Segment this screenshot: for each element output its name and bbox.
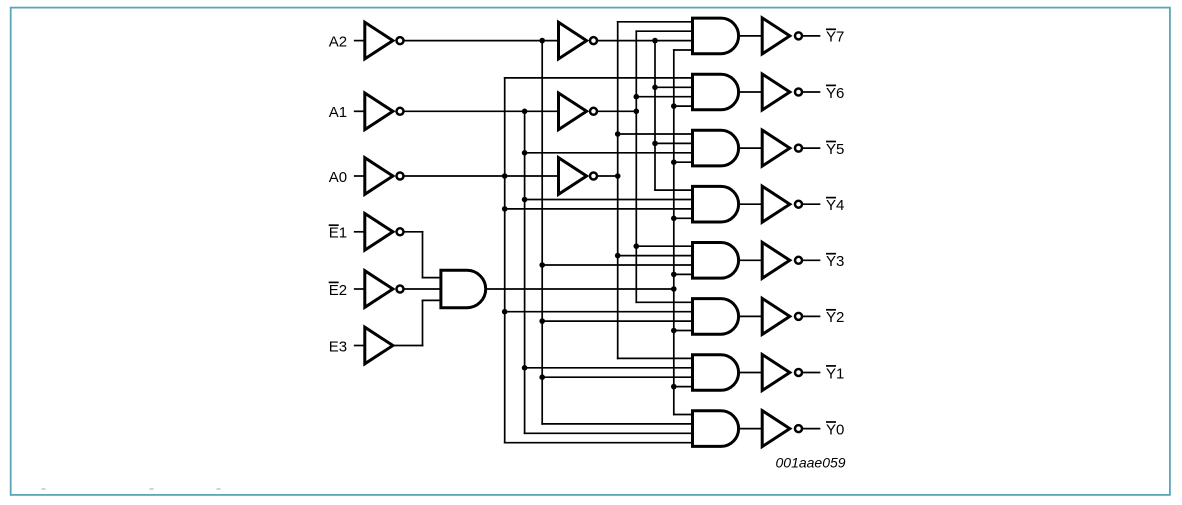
svg-text:Y0: Y0 [826,421,844,438]
overline Y1 [826,365,836,367]
overline E1 [329,224,339,226]
inverting bubble A0 second stage [590,173,597,180]
overline E2 [329,281,339,283]
wire A2 to G4 input 1 [655,189,693,191]
output inverter Y1 [762,355,790,391]
inverter/buffer A1 input stage [365,93,393,130]
wire EN to G7 input 4 [674,49,693,51]
wire A2 input [355,40,365,42]
output inverter Y4 [762,186,790,222]
node /A2 tap G2 [539,318,545,324]
overline Y4 [826,197,836,199]
wire A0 to G1 input 1 [618,357,693,359]
wire /A1 to G5 input 3 [525,152,693,154]
output inverter Y5 [762,130,790,166]
node A0 tap G5 [615,131,621,137]
node A1 tap G3 [634,243,640,249]
overline Y0 [826,421,836,423]
wire E2 input [355,288,365,290]
wire EN to G4 input 4 [674,217,693,219]
wire to label Y2 [803,315,819,317]
overline Y6 [826,84,836,86]
wire /A2 row [405,40,559,42]
inverter A0 second stage [559,158,587,195]
output inverter Y0 [762,411,790,447]
wire A1 to G2 input 1 [636,301,692,303]
wire A0 to G3 input 2 [618,255,693,257]
wire EN to G3 input 4 [674,273,693,275]
node A2 tap G6 [652,85,658,91]
inverting bubble E2 [397,286,404,293]
wire /E1 to enable AND [423,277,441,279]
overline Y2 [826,309,836,311]
wire to label Y5 [803,147,819,149]
wire E3 out [394,345,423,347]
svg-text:Y4: Y4 [826,197,844,214]
AND gate G2 [693,299,739,335]
svg-text:A0: A0 [329,169,347,186]
node /A0 tap [502,173,508,179]
wire G7 to inverter [740,35,763,37]
wire A1 to G3 input 1 [636,245,692,247]
wire EN to G5 input 4 [674,161,693,163]
node /A0 tap G2 [502,309,508,315]
wire /A1 row [405,110,559,112]
inverting bubble Y3 [795,257,802,264]
wire /A1 to G4 input 2 [525,199,693,201]
svg-text:A2: A2 [329,33,347,50]
wire /A2 to G3 input 3 [542,264,692,266]
wire /A2 to G2 input 3 [542,320,692,322]
node EN tap G6 [671,103,677,109]
wire to label Y3 [803,259,819,261]
node /A1 tap G4 [522,197,528,203]
wire A0 to G7 input 1 [618,21,693,23]
bus /A0 vertical [504,78,506,443]
inverting bubble A2 [397,37,404,44]
bus A1 vertical [635,31,637,302]
overline Y7 [826,28,836,30]
inverting bubble A1 second stage [590,108,597,115]
inverter/buffer A0 input stage [365,158,393,195]
svg-text:Y5: Y5 [826,141,844,158]
node EN tap G2 [671,328,677,334]
node EN tap G1 [671,384,677,390]
wire EN to G0 input 1 [674,414,693,416]
svg-text:Y7: Y7 [826,29,844,46]
svg-text:001aae059: 001aae059 [776,455,846,471]
node A1 junction [634,109,640,115]
inverting bubble Y1 [795,369,802,376]
inverter/buffer A2 input stage [365,22,393,59]
wire A2 to G6 input 2 [655,86,693,88]
inverting bubble Y2 [795,313,802,320]
AND gate G0 [693,411,739,447]
wire /A0 row [405,175,559,177]
bus enable vertical [673,50,675,415]
wire /A2 to G1 input 3 [542,376,692,378]
wire /E2 to enable AND [405,288,441,290]
wire enable to bus [487,288,674,290]
svg-text:Y1: Y1 [826,365,844,382]
wire A2 true to G7 input 3 [598,40,692,42]
wire /A0 to G0 input 4 [505,442,693,444]
svg-text:A1: A1 [329,104,347,121]
node /A1 tap G1 [522,365,528,371]
wire A0 to G5 input 1 [618,133,693,135]
wire to label Y1 [803,372,819,374]
node /A2 tap [539,38,545,44]
node A1 tap G6 [634,94,640,100]
overline Y5 [826,141,836,143]
svg-text:E2: E2 [329,282,347,299]
node A2 tap G5 [652,141,658,147]
wire /E1 out [405,231,423,233]
svg-text:Y6: Y6 [826,85,844,102]
node /A0 tap G4 [502,206,508,212]
wire G2 to inverter [740,315,763,317]
AND gate G1 [693,355,739,391]
wire A0 true to bus [598,175,618,177]
wire /A1 to G0 input 3 [525,432,693,434]
svg-text:E1: E1 [329,225,347,242]
node /A2 tap G3 [539,262,545,268]
wire to label Y4 [803,203,819,205]
inverting bubble A0 [397,173,404,180]
wire A1 to G6 input 3 [636,96,692,98]
wire EN to G1 input 4 [674,386,693,388]
wire G5 to inverter [740,147,763,149]
inverting bubble Y4 [795,201,802,208]
wire G0 to inverter [740,428,763,430]
wire A2 to G5 input 2 [655,142,693,144]
AND gate G3 [693,243,739,279]
wire A1 input [355,110,365,112]
inverter/buffer E3 input stage [365,327,393,364]
node enable junction [671,286,677,292]
node EN tap G5 [671,159,677,165]
inverter A2 second stage [559,22,587,59]
wire to label Y7 [803,35,819,37]
wire E3 input [355,345,365,347]
footer remnants [42,488,221,490]
wire G4 to inverter [740,203,763,205]
svg-text:E3: E3 [329,338,347,355]
wire G6 to inverter [740,91,763,93]
node A0 junction [615,173,621,179]
wire E1 input [355,231,365,233]
inverter A1 second stage [559,93,587,130]
wire /E1 branch down [422,232,424,278]
AND gate G5 [693,130,739,166]
inverting bubble E1 [397,228,404,235]
output inverter Y3 [762,242,790,278]
node /A1 tap [522,109,528,115]
svg-text:Y2: Y2 [826,309,844,326]
wire A1 true to bus [598,110,636,112]
node A2 tap [652,38,658,44]
inverter/buffer E1 input stage [365,214,393,251]
inverting bubble A1 [397,108,404,115]
node EN tap G3 [671,272,677,278]
wire E3 branch up [422,300,424,345]
wire A1 to G7 input 2 [636,30,692,32]
output inverter Y6 [762,74,790,110]
bus A0 vertical [617,22,619,359]
wire E3 to enable AND [423,299,441,301]
bus /A2 vertical [541,41,543,424]
wire A0 input [355,175,365,177]
overline Y3 [826,253,836,255]
wire /A2 to G0 input 2 [542,423,692,425]
node /A1 tap G5 [522,150,528,156]
wire /A0 to G6 input 1 [505,77,693,79]
wire EN to G6 input 4 [674,105,693,107]
inverting bubble Y7 [795,32,802,39]
wire to label Y6 [803,91,819,93]
wire G3 to inverter [740,259,763,261]
inverter/buffer E2 input stage [365,271,393,308]
inverting bubble A2 second stage [590,37,597,44]
inverting bubble Y0 [795,425,802,432]
wire /A0 to G2 input 2 [505,311,693,313]
node A0 tap G3 [615,253,621,259]
node EN tap G4 [671,216,677,222]
inverting bubble Y5 [795,145,802,152]
output inverter Y2 [762,298,790,334]
svg-text:Y3: Y3 [826,253,844,270]
AND gate G6 [693,74,739,110]
wire G1 to inverter [740,372,763,374]
wire /A1 to G1 input 2 [525,367,693,369]
AND gate enable (E) [441,270,486,307]
wire EN to G2 input 4 [674,330,693,332]
bus /A1 vertical [524,111,526,433]
wire to label Y0 [803,428,819,430]
AND gate G7 [693,18,739,54]
inverting bubble Y6 [795,89,802,96]
AND gate G4 [693,186,739,222]
node /A2 tap G1 [539,374,545,380]
wire /A0 to G4 input 3 [505,208,693,210]
bus A2 vertical [654,41,656,191]
output inverter Y7 [762,18,790,54]
